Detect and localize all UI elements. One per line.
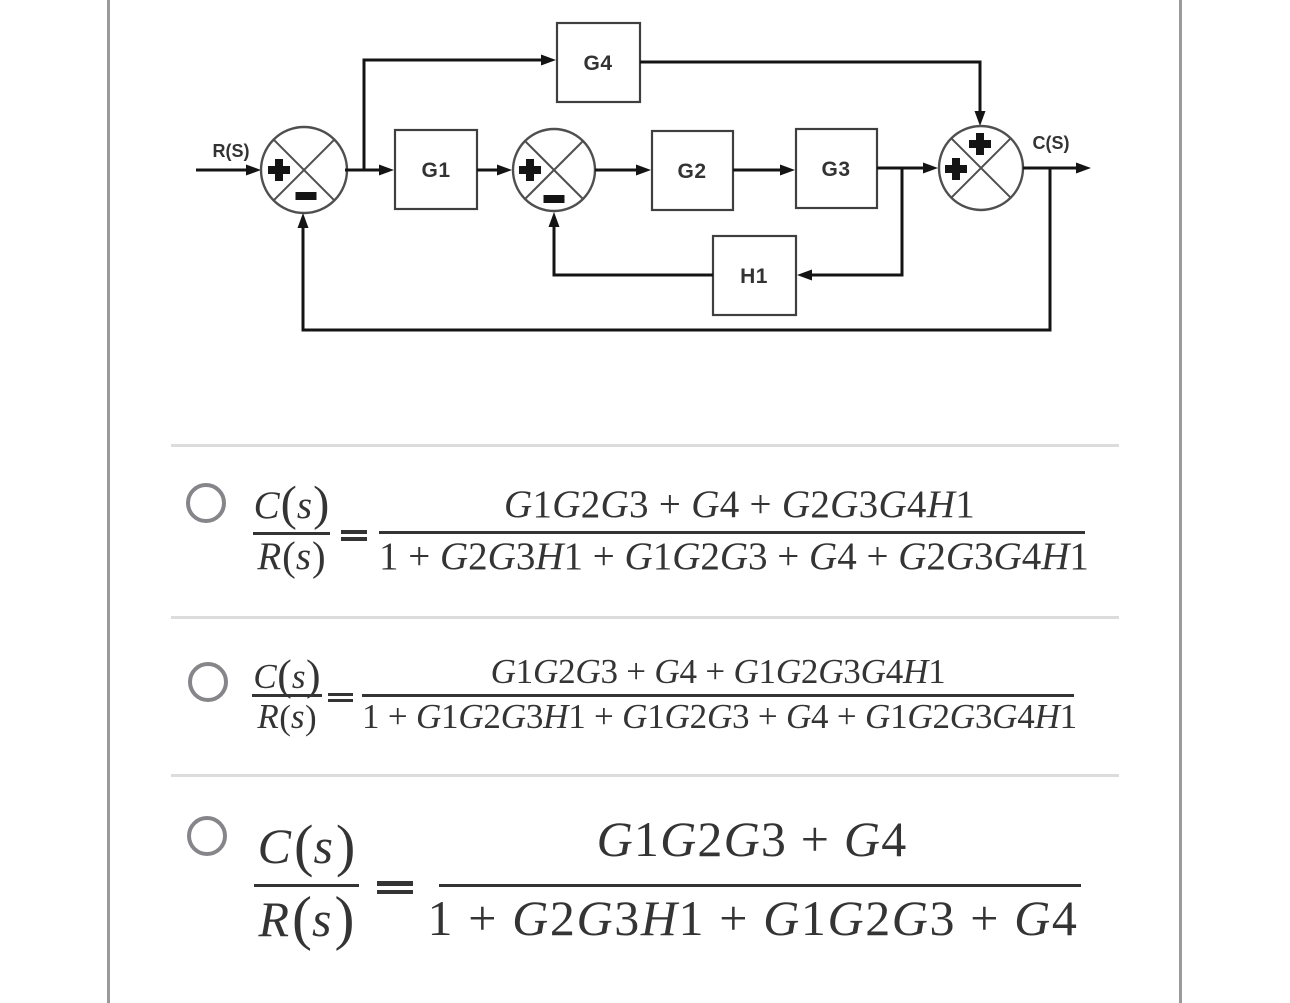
- separator above option B: [171, 616, 1119, 619]
- block G3: [796, 129, 877, 208]
- option B equation: [0, 0, 1290, 1]
- wire: branch down from G3 output to H1 input: [797, 170, 902, 281]
- node: R(S) input label: [213, 141, 250, 161]
- separator above option C: [171, 774, 1119, 777]
- summing junction S1 (+,-): [261, 127, 347, 213]
- wire: S3 output to C(S) with branch node: [1023, 163, 1091, 174]
- svg-text:G3: G3: [821, 158, 850, 181]
- wire: G3 to summing junction S3 with branch node: [877, 163, 938, 174]
- wire: outer feedback from output down, left, and up into S1 (minus): [298, 168, 1051, 330]
- wire: S1 to G1 with branch node: [345, 165, 394, 176]
- svg-text:G1: G1: [421, 159, 450, 182]
- block G2: [652, 131, 733, 210]
- svg-text:R(S): R(S): [213, 141, 250, 161]
- block G1: [395, 130, 477, 209]
- block G4: [557, 23, 640, 102]
- page left border: [107, 0, 110, 1003]
- option C equation: [0, 0, 1290, 1]
- option B radio: [188, 662, 228, 702]
- wire: G1 to summing junction S2: [477, 165, 512, 176]
- wire: branch up from node to G4 feedforward: [364, 55, 556, 172]
- wire: R(S) input arrow into summing junction S1: [196, 165, 261, 176]
- wire: G2 to G3: [733, 165, 795, 176]
- wire: G4 output right then down into summing junction S3: [640, 62, 986, 126]
- summing junction S2 (+,-): [513, 129, 595, 211]
- wire: H1 output left then up into S2 (minus): [549, 212, 714, 275]
- wire: S2 to G2: [595, 165, 651, 176]
- separator above option A: [171, 444, 1119, 447]
- summing junction S3 (+,+): [939, 126, 1023, 210]
- block diagram: [0, 0, 1290, 400]
- option A equation: [0, 0, 1290, 1]
- node: C(S) output label: [1033, 133, 1070, 153]
- svg-text:C(S): C(S): [1033, 133, 1070, 153]
- block H1: [713, 236, 796, 315]
- option C radio: [187, 816, 227, 856]
- page right border: [1179, 0, 1182, 1003]
- option A radio: [186, 483, 226, 523]
- svg-text:H1: H1: [740, 265, 768, 288]
- svg-text:G4: G4: [583, 52, 612, 75]
- svg-text:G2: G2: [677, 160, 706, 183]
